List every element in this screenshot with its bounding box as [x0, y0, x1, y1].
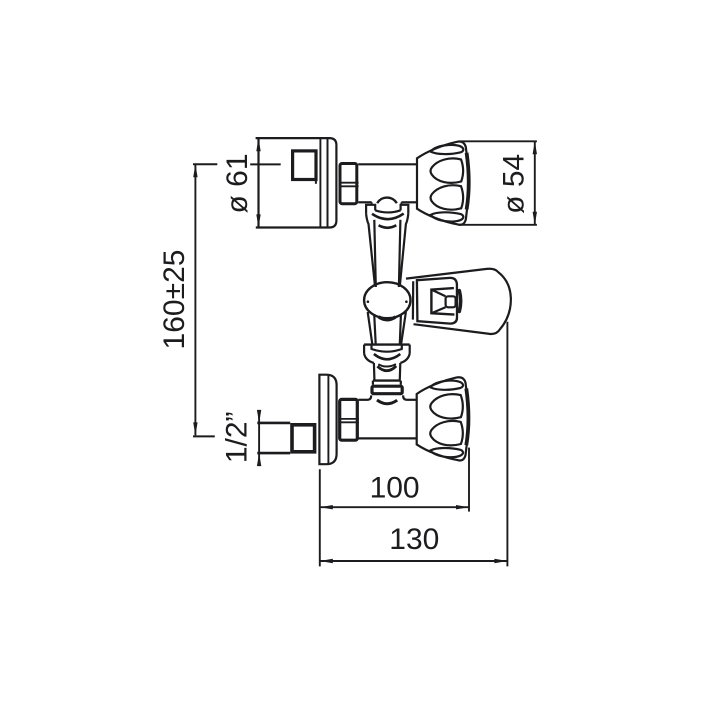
diverter disc edge (black bar) [459, 291, 460, 312]
centerline top inlet [250, 163, 281, 165]
diverter boss [431, 288, 454, 315]
ball lower smile arc [379, 317, 396, 320]
wall flange bottom [319, 375, 336, 465]
dimension 1/2" [258, 411, 260, 465]
svg-text:ø 54: ø 54 [497, 154, 530, 214]
spout end cap edge [412, 281, 415, 319]
dimension 130 [320, 322, 508, 567]
top bonnet dome [377, 198, 397, 204]
top bonnet collar [366, 202, 408, 219]
bottom valve body pipe [358, 400, 416, 439]
1/2 inch pipe nipple [257, 423, 290, 453]
ball pivot dots [367, 300, 370, 303]
svg-text:160±25: 160±25 [158, 250, 191, 350]
hex nut top valve [339, 164, 359, 204]
lower neck column [368, 312, 406, 344]
dimension 100 [320, 448, 469, 567]
dimension ø54 [458, 141, 537, 225]
svg-text:1/2”: 1/2” [220, 411, 253, 463]
top knob [417, 142, 469, 225]
spout collar escutcheon [417, 278, 457, 324]
dimension 160±25 arrows/ticks [193, 164, 197, 177]
upper neck column [366, 214, 408, 285]
diverter knob square [446, 296, 456, 307]
central ball joint [364, 282, 410, 318]
square block on pipe nipple [292, 425, 315, 452]
lower neck below flange [374, 363, 400, 380]
svg-text:ø 61: ø 61 [221, 153, 254, 213]
hex nut bottom valve [339, 399, 359, 440]
dimension ø61 [194, 164, 196, 435]
svg-text:100: 100 [370, 472, 420, 505]
square broach on eccentric [293, 151, 316, 184]
lower bonnet flange [364, 345, 410, 363]
spout cone (shower outlet) [406, 269, 511, 334]
bottom knob [417, 377, 469, 460]
lower coupling [367, 381, 407, 400]
neck inner lines over ball [374, 220, 376, 287]
svg-text:130: 130 [389, 523, 439, 556]
top valve body pipe [358, 164, 417, 202]
eccentric union body (top wall connection) [256, 138, 337, 227]
